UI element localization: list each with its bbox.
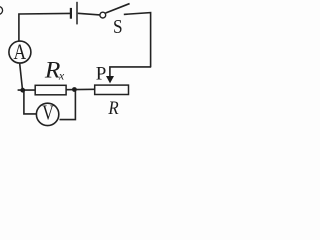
wire node to Rx left lead: [18, 89, 35, 91]
svg-text:R: R: [107, 98, 119, 119]
switch S pivot circle: [100, 12, 106, 18]
voltmeter V circle: [36, 103, 58, 125]
rheostat R box: [95, 85, 129, 94]
wire switch fixed contact to top-right corner: [124, 13, 151, 67]
svg-text:V: V: [42, 100, 54, 124]
voltmeter right branch wire: [60, 90, 76, 120]
battery B (long positive plate): [76, 2, 78, 25]
node junction dot left: [20, 88, 25, 93]
figure label arc ")" at left edge: [0, 6, 3, 14]
battery B (short negative plate): [70, 8, 72, 19]
svg-text:A: A: [13, 39, 26, 64]
wire battery to switch: [78, 13, 100, 15]
svg-text:R: R: [44, 57, 61, 82]
rheostat slider arrowhead: [106, 76, 114, 83]
switch S lever arm: [106, 4, 130, 13]
voltmeter left branch wire: [24, 90, 36, 114]
wire ammeter to node: [20, 64, 23, 89]
wire top-left corner and left vertical to ammeter: [19, 13, 70, 41]
svg-text:P: P: [96, 64, 107, 85]
svg-text:x: x: [58, 69, 65, 83]
ammeter A circle: [9, 41, 31, 63]
svg-text:S: S: [113, 16, 123, 38]
wire Rx to right node to rheostat: [67, 88, 95, 90]
wire right step to slider: [110, 67, 151, 77]
node junction dot right: [72, 87, 77, 92]
resistor Rx box: [35, 85, 66, 95]
